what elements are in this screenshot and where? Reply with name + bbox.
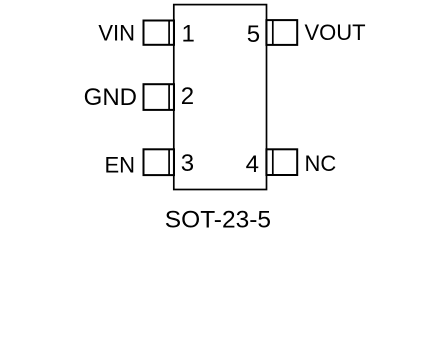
svg-text:1: 1 xyxy=(182,20,195,47)
package body U1 (SOT-23-5 outline) xyxy=(174,5,267,190)
svg-text:VIN: VIN xyxy=(98,20,135,45)
pin 2 pad xyxy=(144,84,175,110)
svg-text:VOUT: VOUT xyxy=(305,20,366,45)
svg-text:5: 5 xyxy=(247,21,260,48)
pin 5 pad xyxy=(266,20,297,45)
pin 3 pad xyxy=(144,149,175,175)
svg-text:3: 3 xyxy=(181,150,194,177)
svg-text:NC: NC xyxy=(305,151,337,176)
svg-text:2: 2 xyxy=(181,83,194,110)
svg-text:4: 4 xyxy=(246,151,259,178)
svg-text:SOT-23-5: SOT-23-5 xyxy=(165,206,271,233)
svg-text:GND: GND xyxy=(84,84,137,111)
pin 4 pad xyxy=(266,149,297,175)
pin 1 pad xyxy=(144,21,175,45)
svg-text:EN: EN xyxy=(104,152,135,177)
